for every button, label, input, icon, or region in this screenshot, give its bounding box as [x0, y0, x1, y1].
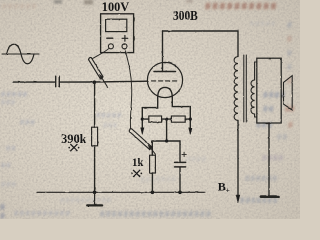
- speaker cone: [284, 76, 293, 110]
- svg-text:##########: ##########: [205, 1, 278, 13]
- wire: left stub: [142, 118, 149, 120]
- svg-text:#####: #####: [96, 110, 122, 120]
- svg-text:100V: 100V: [102, 0, 130, 14]
- wire: filament left leg: [142, 98, 157, 129]
- voltmeter window: [106, 19, 127, 31]
- wire: speaker to chassis: [268, 123, 270, 195]
- plus mark: [122, 36, 128, 42]
- svg-text:#: #: [288, 121, 293, 131]
- reference mark for 390k: [69, 144, 78, 151]
- speaker box: [257, 58, 281, 123]
- B+ arrow: [236, 195, 240, 203]
- wire: capacitor to rail: [179, 168, 181, 193]
- svg-text:#####: #####: [250, 19, 276, 28]
- transformer secondary winding: [251, 62, 257, 117]
- grid (dashed): [152, 80, 179, 82]
- wire: meter positive lead: [125, 49, 132, 129]
- hum-balance resistor right: [171, 116, 185, 122]
- signal source (sine symbol): [2, 44, 39, 64]
- svg-text:##: ##: [263, 105, 275, 115]
- node: center tap: [165, 118, 168, 121]
- svg-text:##########: ##########: [14, 208, 72, 218]
- wire: 390k to ground rail: [94, 146, 96, 193]
- wire: filament right leg: [172, 98, 190, 129]
- transformer primary winding: [234, 57, 238, 121]
- voltmeter body: [101, 14, 134, 53]
- wire: capacitor to grid: [60, 80, 148, 83]
- filament supply arrow right: [189, 128, 192, 135]
- probe 2 tip: [151, 148, 156, 154]
- node: right filament: [189, 118, 192, 121]
- ground rail: [37, 191, 205, 193]
- capacitor bypass (electrolytic): [175, 152, 187, 167]
- wire: meter negative lead: [93, 48, 110, 58]
- svg-text:####: ####: [263, 91, 286, 101]
- svg-text:1k: 1k: [132, 155, 144, 169]
- plate: [154, 71, 176, 73]
- node: cathode bar center: [165, 139, 168, 142]
- node: left filament: [141, 118, 144, 121]
- svg-text:##: ##: [277, 132, 288, 142]
- svg-text:###: ###: [20, 117, 36, 127]
- svg-text:##: ##: [6, 143, 17, 153]
- node: capacitor at rail: [178, 191, 182, 195]
- wire: junction down to 390k: [94, 82, 96, 127]
- svg-text:###################: ###################: [100, 209, 212, 219]
- terminal positive: [122, 44, 127, 49]
- filament: [158, 87, 173, 97]
- svg-text:#######: #######: [140, 174, 177, 184]
- svg-text:+: +: [226, 185, 230, 194]
- wire: center tap down: [166, 119, 168, 141]
- wire: 1k to rail: [151, 173, 153, 192]
- circuit ink: [2, 14, 292, 206]
- svg-text:300B: 300B: [173, 8, 198, 23]
- wire: cathode bar: [152, 140, 180, 142]
- svg-text:###: ###: [1, 179, 17, 189]
- probe 2: [129, 129, 152, 150]
- svg-text:#: #: [0, 212, 5, 219]
- terminal negative: [108, 44, 113, 49]
- node: 1k at rail: [151, 191, 155, 195]
- svg-text:####: ####: [186, 154, 207, 164]
- svg-text:##: ##: [1, 160, 12, 170]
- svg-text:#: #: [287, 63, 292, 73]
- svg-text:###: ###: [1, 98, 16, 107]
- wire: right stub: [185, 118, 190, 120]
- wire: down to bypass capacitor: [179, 141, 181, 162]
- node: 390k at rail: [93, 191, 97, 195]
- probe 1 tip: [102, 78, 108, 87]
- wire: primary to B+: [237, 120, 239, 196]
- svg-text:#: #: [287, 49, 292, 59]
- resistor 390k: [92, 127, 98, 146]
- transformer core: [244, 55, 247, 122]
- filament supply arrow left: [141, 128, 144, 135]
- op: triode 300B envelope: [147, 62, 182, 97]
- svg-text:####: ####: [262, 153, 284, 163]
- chassis ground bar: [261, 195, 278, 198]
- wire: plate top run to transformer: [163, 31, 239, 57]
- ground: [87, 192, 102, 205]
- svg-text:###: ###: [103, 121, 118, 130]
- minus mark: [107, 37, 113, 39]
- svg-text:#: #: [287, 35, 292, 45]
- hum-balance resistor left: [149, 116, 162, 122]
- probe 1: [89, 57, 103, 78]
- resistor 1k: [150, 155, 156, 173]
- svg-text:390k: 390k: [61, 131, 87, 146]
- svg-text:#: #: [287, 21, 292, 31]
- node A (grid / 390k junction): [93, 80, 97, 84]
- wire: center stubs: [162, 118, 172, 120]
- reference mark for 1k: [132, 170, 141, 177]
- wire: plate lead up: [162, 31, 164, 72]
- wire: input to coupling capacitor: [13, 81, 55, 83]
- svg-text:######: ######: [245, 174, 278, 184]
- svg-text:##########: ##########: [60, 196, 112, 205]
- svg-text:######: ######: [2, 2, 38, 11]
- coupling capacitor: [56, 76, 60, 87]
- wire: down to 1k: [151, 141, 153, 155]
